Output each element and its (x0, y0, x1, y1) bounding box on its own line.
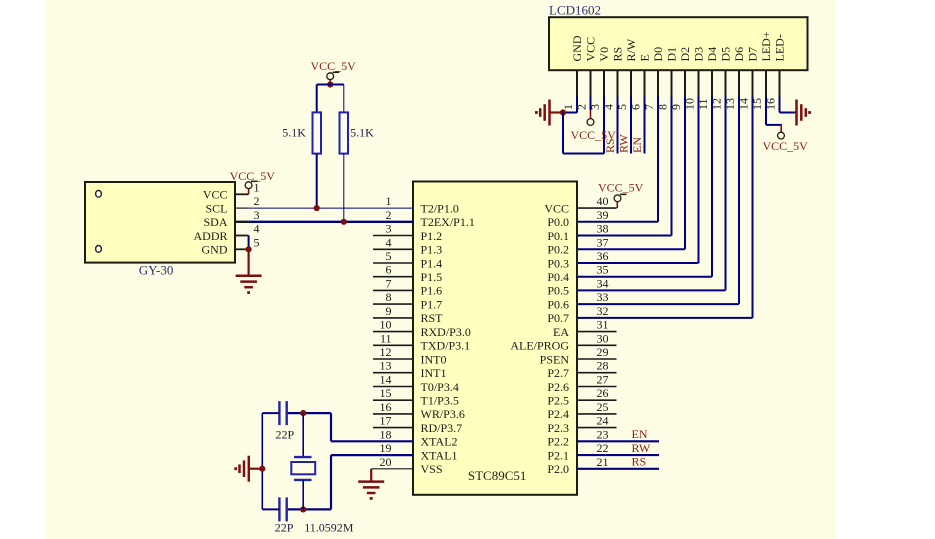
wire D2 vertical (684, 97, 686, 250)
capacitor C2 22P plates (279, 497, 286, 521)
svg-text:1: 1 (561, 104, 575, 110)
crystal Y1 symbol (291, 457, 315, 480)
LCD1602 pin 14 stub and number (737, 70, 753, 110)
STC89C51 pin 11 stub (373, 344, 413, 346)
svg-text:32: 32 (597, 304, 609, 318)
svg-text:P0.1: P0.1 (547, 229, 569, 243)
svg-text:35: 35 (597, 263, 609, 277)
wire RS at pin 21 (577, 468, 659, 470)
svg-text:EN: EN (630, 137, 644, 153)
svg-text:D1: D1 (665, 47, 679, 62)
GY-30 pin 4 stub and number (235, 222, 260, 236)
svg-text:VCC: VCC (584, 37, 598, 62)
power port VCC_5V above resistors (327, 72, 339, 79)
wire GND-V0 bottom segment (563, 153, 604, 155)
svg-text:D6: D6 (732, 47, 746, 62)
STC89C51 pin 7 stub (373, 289, 413, 291)
LCD1602 pin 7 stub and number (642, 70, 658, 110)
svg-text:LED+: LED+ (759, 31, 773, 61)
LCD1602 pin 15 stub and number (750, 70, 766, 110)
STC89C51 pin 29 stub (577, 358, 617, 360)
junction GY-30 GND node (246, 246, 252, 252)
wire GND down segment (V0 tie) (562, 113, 564, 154)
wire XTAL2 from chip (331, 440, 413, 442)
wire R2 top lead (343, 85, 345, 113)
svg-text:5: 5 (254, 235, 260, 249)
wire C2 left lead (262, 508, 279, 510)
svg-text:VCC_5V: VCC_5V (311, 59, 357, 73)
wire P0.5 horizontal (577, 289, 726, 291)
GY-30 pin 3 stub and number (235, 208, 260, 222)
STC89C51 pin 14 stub (373, 386, 413, 388)
wire D3 vertical (698, 97, 700, 264)
wire LCD pin1 GND down (576, 97, 578, 113)
svg-text:GND: GND (202, 243, 228, 257)
svg-text:P0.6: P0.6 (547, 297, 569, 311)
wire R1 bottom lead to SCL (316, 154, 318, 209)
svg-text:9: 9 (386, 304, 392, 318)
svg-text:XTAL2: XTAL2 (421, 435, 458, 449)
junction resistor top node (327, 81, 333, 87)
svg-text:22P: 22P (276, 428, 295, 442)
svg-text:P0.4: P0.4 (547, 270, 569, 284)
svg-text:VCC_5V: VCC_5V (230, 169, 276, 183)
GY-30 pin 2 stub and number (235, 194, 260, 208)
svg-text:25: 25 (597, 400, 609, 414)
svg-text:39: 39 (597, 208, 609, 222)
STC89C51 pin 12 stub (373, 358, 413, 360)
STC89C51 pin 16 stub (373, 413, 413, 415)
wire RW at pin 22 (577, 454, 659, 456)
svg-text:P1.6: P1.6 (421, 284, 443, 298)
power riser VCC pin40 (616, 201, 618, 208)
svg-text:GND: GND (570, 35, 584, 61)
svg-text:PSEN: PSEN (540, 352, 570, 366)
svg-text:D5: D5 (719, 47, 733, 62)
wire XTAL1 riser (330, 455, 332, 509)
module GY-30 body (85, 182, 235, 263)
svg-text:40: 40 (597, 194, 609, 208)
svg-text:EN: EN (632, 427, 648, 441)
svg-text:22P: 22P (275, 521, 294, 535)
wire resistor top rail (317, 84, 344, 86)
svg-text:P2.5: P2.5 (547, 394, 569, 408)
svg-text:T2EX/P1.1: T2EX/P1.1 (421, 215, 475, 229)
svg-text:V0: V0 (597, 47, 611, 62)
LCD1602 pin 3 stub and number (588, 70, 604, 110)
svg-text:VCC_5V: VCC_5V (763, 139, 809, 153)
wire LCD pin6 EN down (644, 97, 646, 154)
wire P0.2 horizontal (577, 248, 685, 250)
svg-text:E: E (638, 54, 652, 61)
svg-text:13: 13 (380, 359, 392, 373)
svg-text:ALE/PROG: ALE/PROG (510, 339, 569, 353)
svg-text:7: 7 (386, 276, 392, 290)
GY-30 pin 5 stub and number (235, 235, 260, 249)
wire LCD pin2 VCC down (590, 97, 592, 111)
svg-text:RD/P3.7: RD/P3.7 (421, 421, 463, 435)
STC89C51 pin 27 stub (577, 386, 617, 388)
svg-text:6: 6 (386, 263, 392, 277)
svg-text:38: 38 (597, 222, 609, 236)
svg-text:20: 20 (380, 455, 392, 469)
svg-text:3: 3 (386, 222, 392, 236)
svg-text:D3: D3 (692, 47, 706, 62)
wire LCD pin5 RW down (630, 97, 632, 154)
svg-text:RS: RS (632, 455, 647, 469)
svg-text:P1.7: P1.7 (421, 297, 443, 311)
svg-text:P0.0: P0.0 (547, 215, 569, 229)
svg-text:5: 5 (386, 249, 392, 263)
svg-text:11: 11 (380, 331, 392, 345)
power port VCC_5V at GY-30 (245, 181, 257, 188)
wire LCD pin15 LED+ right (766, 124, 782, 126)
STC89C51 pin 10 stub (373, 331, 413, 333)
wire P0.3 horizontal (577, 262, 699, 264)
svg-text:11.0592M: 11.0592M (304, 521, 354, 535)
svg-text:8: 8 (386, 290, 392, 304)
wire XTAL1 to cap C2 (287, 508, 331, 510)
wire XTAL1 from chip (331, 454, 413, 456)
svg-text:27: 27 (597, 373, 609, 387)
svg-text:VCC_5V: VCC_5V (598, 181, 644, 195)
svg-text:28: 28 (597, 359, 609, 373)
svg-text:18: 18 (380, 427, 392, 441)
svg-text:RS: RS (611, 47, 625, 62)
svg-text:D0: D0 (651, 47, 665, 62)
svg-text:2: 2 (254, 194, 260, 208)
junction R2-SDA (341, 219, 347, 225)
svg-text:RW: RW (617, 134, 631, 153)
junction XTAL1 node (300, 506, 306, 512)
wire D1 vertical (671, 97, 673, 236)
wire P0.6 horizontal (577, 303, 739, 305)
wire LCD pin4 RS down (617, 97, 619, 154)
svg-text:5.1K: 5.1K (282, 126, 306, 140)
LCD1602 pin 1 stub and number (561, 70, 577, 110)
svg-text:RST: RST (421, 311, 444, 325)
LCD1602 pin 10 stub and number (683, 70, 699, 110)
svg-text:P0.3: P0.3 (547, 256, 569, 270)
power riser GY-30 VCC (248, 188, 250, 194)
svg-text:5.1K: 5.1K (350, 126, 374, 140)
power riser resistors VCC (329, 79, 331, 84)
IC U1 STC89C51 body (413, 182, 577, 495)
svg-text:12: 12 (380, 345, 392, 359)
power riser at LCD pin2 (590, 110, 592, 119)
IC LCD1602 body (549, 17, 808, 70)
svg-text:22: 22 (597, 441, 609, 455)
svg-text:P2.7: P2.7 (547, 366, 569, 380)
wire ADDR down to GND (248, 236, 250, 250)
svg-text:D4: D4 (705, 47, 719, 62)
STC89C51 pin 13 stub (373, 372, 413, 374)
wire D7 vertical (752, 97, 754, 318)
crystal Y1 top lead (302, 413, 304, 457)
LCD1602 pin 11 stub and number (696, 70, 712, 110)
wire EN at pin 23 (577, 440, 659, 442)
STC89C51 pin 3 stub (373, 235, 413, 237)
svg-text:17: 17 (380, 414, 392, 428)
svg-text:36: 36 (597, 249, 609, 263)
wire R1 top lead (316, 85, 318, 113)
svg-text:21: 21 (597, 455, 609, 469)
svg-text:GY-30: GY-30 (139, 263, 174, 278)
svg-text:26: 26 (597, 386, 609, 400)
junction R1-SCL (314, 205, 320, 211)
svg-text:4: 4 (386, 235, 392, 249)
svg-text:STC89C51: STC89C51 (468, 468, 527, 483)
svg-text:16: 16 (380, 400, 392, 414)
svg-text:TXD/P3.1: TXD/P3.1 (421, 339, 471, 353)
STC89C51 pin 4 stub (373, 248, 413, 250)
svg-text:14: 14 (380, 373, 392, 387)
svg-text:T1/P3.5: T1/P3.5 (421, 394, 459, 408)
svg-text:10: 10 (380, 318, 392, 332)
STC89C51 pin 26 stub (577, 399, 617, 401)
svg-text:37: 37 (597, 235, 609, 249)
svg-text:T0/P3.4: T0/P3.4 (421, 380, 459, 394)
wire LCD pin3 V0 down (603, 97, 605, 154)
junction LCD GND node (560, 109, 566, 115)
ground symbol left of crystal (234, 456, 262, 482)
junction XTAL2 node (300, 410, 306, 416)
svg-text:WR/P3.6: WR/P3.6 (421, 407, 465, 421)
wire C1 left lead (262, 412, 279, 414)
wire LCD pin16 LED- right to ground (780, 112, 795, 114)
wire D4 vertical (711, 97, 713, 277)
LCD1602 pin 5 stub and number (615, 70, 631, 110)
svg-text:T2/P1.0: T2/P1.0 (421, 201, 459, 215)
wire D5 vertical (725, 97, 727, 291)
STC89C51 pin 17 stub (373, 427, 413, 429)
wire R2 bottom lead to SDA (343, 154, 345, 222)
svg-text:VCC: VCC (203, 188, 228, 202)
resistor R1 5.1K body (313, 112, 322, 153)
svg-text:P0.2: P0.2 (547, 243, 569, 257)
wire P0.4 horizontal (577, 276, 712, 278)
STC89C51 pin 8 stub (373, 303, 413, 305)
resistor R2 5.1K body (340, 112, 349, 153)
STC89C51 pin 5 stub (373, 262, 413, 264)
STC89C51 pin 31 stub (577, 331, 617, 333)
svg-text:LED-: LED- (773, 34, 787, 61)
GY-30 mounting hole top (96, 190, 102, 197)
LCD1602 pin 16 stub and number (764, 70, 780, 110)
wire capacitor ground rail (261, 413, 263, 509)
svg-text:SCL: SCL (205, 201, 227, 215)
svg-text:P1.5: P1.5 (421, 270, 443, 284)
svg-text:P2.4: P2.4 (547, 407, 569, 421)
LCD1602 pin 2 stub and number (575, 70, 591, 110)
ground symbol below VSS (358, 469, 384, 500)
wire SDA net (249, 221, 413, 223)
LCD1602 pin 9 stub and number (669, 70, 685, 110)
wire P0.7 horizontal (577, 317, 753, 319)
capacitor C1 22P plates (279, 401, 286, 425)
svg-text:33: 33 (597, 290, 609, 304)
svg-text:2: 2 (386, 208, 392, 222)
LCD1602 pin 8 stub and number (656, 70, 672, 110)
svg-text:RXD/P3.0: RXD/P3.0 (421, 325, 471, 339)
power riser LED+ (780, 125, 782, 132)
LCD1602 pin 13 stub and number (723, 70, 739, 110)
svg-text:31: 31 (597, 318, 609, 332)
STC89C51 pin 24 stub (577, 427, 617, 429)
wire LCD pin16 LED- down (779, 97, 781, 113)
STC89C51 pin 15 stub (373, 399, 413, 401)
svg-text:P2.1: P2.1 (547, 448, 569, 462)
svg-text:D7: D7 (746, 47, 760, 62)
LCD1602 pin 6 stub and number (629, 70, 645, 110)
svg-text:19: 19 (380, 441, 392, 455)
svg-text:P1.2: P1.2 (421, 229, 443, 243)
svg-text:RW: RW (632, 441, 651, 455)
crystal Y1 bottom lead (302, 480, 304, 510)
svg-text:RS: RS (603, 138, 617, 153)
STC89C51 pin 25 stub (577, 413, 617, 415)
power port VCC_5V at LED+ (778, 132, 785, 139)
svg-text:24: 24 (597, 414, 609, 428)
svg-text:P0.5: P0.5 (547, 284, 569, 298)
svg-text:P2.6: P2.6 (547, 380, 569, 394)
wire LCD pin1 GND left to ground (563, 112, 577, 114)
svg-text:VSS: VSS (421, 462, 443, 476)
svg-text:VCC: VCC (544, 201, 569, 215)
STC89C51 pin 9 stub (373, 317, 413, 319)
STC89C51 pin 30 stub (577, 344, 617, 346)
svg-text:D2: D2 (678, 47, 692, 62)
svg-text:15: 15 (380, 386, 392, 400)
svg-text:R/W: R/W (624, 38, 638, 61)
svg-text:P0.7: P0.7 (547, 311, 569, 325)
wire SCL net (249, 207, 413, 209)
wire XTAL2 to cap C1 (287, 412, 331, 414)
wire VSS from pin 20 (371, 468, 413, 470)
svg-text:P2.3: P2.3 (547, 421, 569, 435)
svg-text:P2.0: P2.0 (547, 462, 569, 476)
svg-text:SDA: SDA (203, 215, 227, 229)
wire D0 vertical (657, 97, 659, 222)
wire D6 vertical (738, 97, 740, 305)
svg-text:29: 29 (597, 345, 609, 359)
GY-30 mounting hole bottom (96, 246, 102, 253)
GY-30 pin 1 stub and number (235, 180, 260, 194)
wire P0.0 horizontal (577, 221, 658, 223)
svg-text:INT0: INT0 (421, 352, 447, 366)
svg-text:P2.2: P2.2 (547, 435, 569, 449)
wire P0.1 horizontal (577, 235, 672, 237)
ground symbol below GY-30 (236, 249, 262, 294)
svg-text:INT1: INT1 (421, 366, 447, 380)
svg-text:3: 3 (254, 208, 260, 222)
svg-text:23: 23 (597, 427, 609, 441)
LCD1602 pin 12 stub and number (710, 70, 726, 110)
wire XTAL2 riser (330, 413, 332, 441)
svg-text:1: 1 (386, 194, 392, 208)
svg-text:EA: EA (553, 325, 569, 339)
svg-text:34: 34 (597, 276, 609, 290)
STC89C51 pin 6 stub (373, 276, 413, 278)
STC89C51 pin 28 stub (577, 372, 617, 374)
svg-text:P1.4: P1.4 (421, 256, 443, 270)
power port VCC_5V at LCD pin2 (587, 119, 594, 126)
wire LCD pin15 LED+ down (765, 97, 767, 125)
svg-text:LCD1602: LCD1602 (549, 3, 601, 18)
junction ground rail node (259, 466, 265, 472)
svg-text:30: 30 (597, 331, 609, 345)
svg-text:XTAL1: XTAL1 (421, 448, 458, 462)
svg-text:P1.3: P1.3 (421, 243, 443, 257)
LCD1602 pin 4 stub and number (602, 70, 618, 110)
ground symbol right of LCD (795, 100, 812, 126)
svg-text:4: 4 (254, 222, 260, 236)
ground symbol left of LCD (535, 100, 563, 126)
power port VCC_5V at pin 40 (614, 194, 626, 201)
STC89C51 pin 40 stub (577, 207, 617, 209)
svg-text:ADDR: ADDR (193, 229, 227, 243)
